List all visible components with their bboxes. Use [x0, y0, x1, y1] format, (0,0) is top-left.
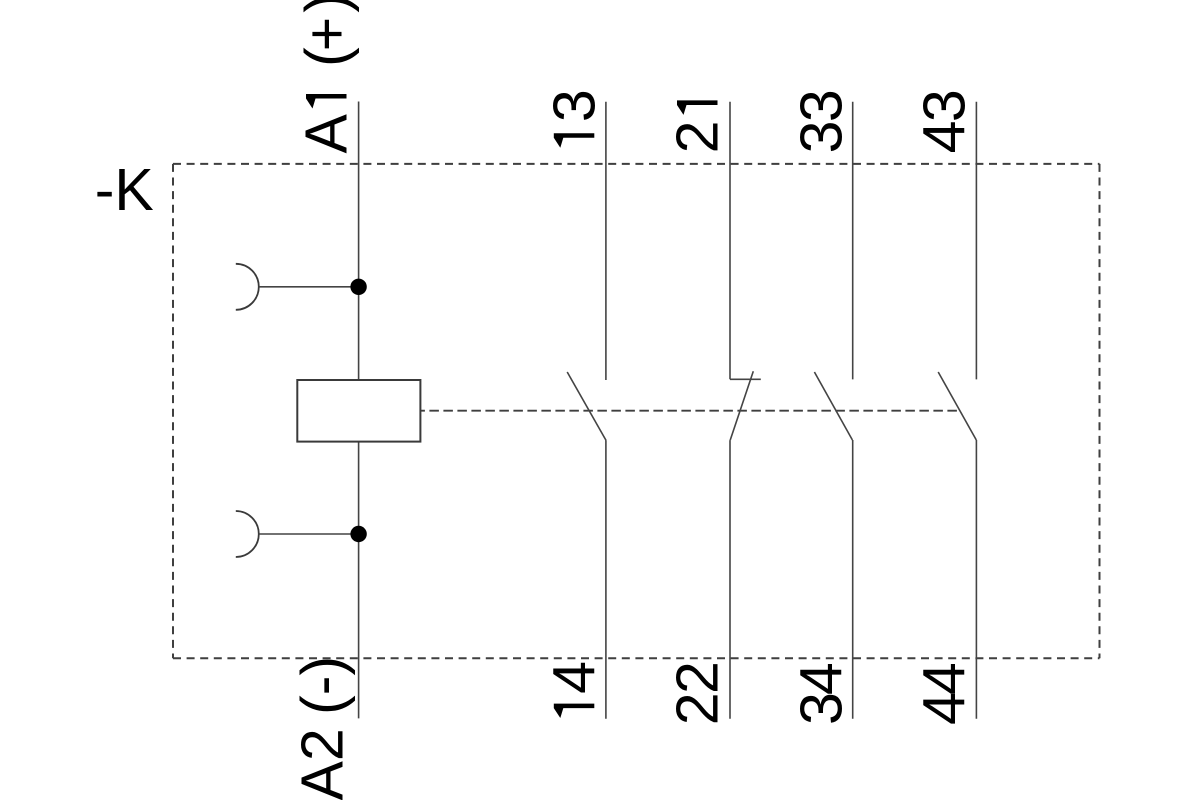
upper suppressor terminal arc [236, 264, 259, 310]
node junction lower (dot) [350, 526, 366, 542]
svg-text:-K: -K [95, 157, 154, 223]
pin label 13 [541, 89, 607, 153]
pin label 21 [665, 88, 731, 154]
wire coil top (A1 lead) [358, 102, 360, 381]
wire upper branch [259, 286, 359, 288]
contactor K1 boundary left edge (dashed) [172, 164, 174, 658]
svg-text:33: 33 [788, 89, 854, 153]
lower suppressor terminal arc [236, 511, 259, 557]
contact NO 13-14 blade [567, 372, 606, 441]
svg-text:A2 (-): A2 (-) [290, 656, 356, 800]
contactor K1 boundary right edge (dashed) [1099, 164, 1101, 658]
terminal label A1 (+) [294, 0, 360, 154]
contactor K1 boundary bottom edge (dashed) [173, 657, 1100, 659]
svg-text:21: 21 [665, 88, 731, 154]
pin label 14 [541, 661, 607, 724]
coil K (operating coil box) [297, 380, 420, 442]
contact NC 21-22 stop bar [730, 378, 761, 380]
contact NC 21-22 blade [730, 371, 753, 440]
contactor K1 boundary top edge (dashed) [173, 163, 1100, 165]
contact NO 33-34 bottom lead [852, 440, 854, 719]
wire coil bottom (A2 lead) [358, 442, 360, 719]
svg-text:14: 14 [541, 661, 607, 724]
svg-text:22: 22 [665, 661, 731, 725]
svg-text:34: 34 [788, 662, 854, 725]
mechanical link (dashed) coil to contacts [421, 410, 961, 412]
svg-text:A1 (+): A1 (+) [294, 0, 360, 154]
contact NO 33-34 blade [814, 372, 852, 440]
contact NO 13-14 top lead [605, 102, 607, 380]
node junction upper (dot) [350, 279, 366, 295]
contact NO 33-34 top lead [852, 102, 854, 380]
contact NO 43-44 blade [938, 372, 976, 440]
contact NO 13-14 bottom lead [605, 441, 607, 719]
contact NO 43-44 bottom lead [975, 440, 977, 719]
contact NC 21-22 top lead [729, 102, 731, 380]
svg-text:44: 44 [911, 662, 977, 725]
svg-text:13: 13 [541, 89, 607, 153]
contact NO 43-44 top lead [975, 102, 977, 380]
wire lower branch [259, 533, 359, 535]
svg-text:43: 43 [911, 89, 977, 153]
contact NC 21-22 bottom lead [729, 440, 731, 719]
